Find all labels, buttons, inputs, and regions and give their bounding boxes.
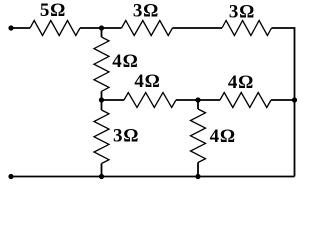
resistor R4 4ohm (vertical, node A to node B) xyxy=(94,37,109,91)
node C junction dot (middle rail / R8) xyxy=(195,97,200,102)
wire: top rail from R1 to node A and on to R2 xyxy=(80,27,122,29)
resistor R5 4ohm (middle left) xyxy=(124,93,176,108)
wire: node B down to R7 xyxy=(101,100,103,110)
resistor R6 4ohm (middle right) xyxy=(220,93,271,108)
wire: node C down to R8 xyxy=(197,100,199,109)
svg-text:4Ω: 4Ω xyxy=(112,51,138,72)
wire: bottom rail from left terminal to bottom-right corner xyxy=(11,176,295,178)
junction dot: R7 on bottom rail xyxy=(99,174,104,179)
terminal dot: left bottom input xyxy=(8,174,13,179)
wire: top rail from left terminal to R1 xyxy=(11,27,30,29)
svg-text:5Ω: 5Ω xyxy=(40,0,66,21)
svg-text:4Ω: 4Ω xyxy=(210,126,236,147)
resistor R8 4ohm (vertical, node C to bottom rail) xyxy=(191,109,206,163)
node B junction dot (R4 / middle rail / R7) xyxy=(99,97,104,102)
wire: middle rail from R6 to right rail node D xyxy=(271,99,295,101)
junction dot: R8 on bottom rail xyxy=(195,174,200,179)
wire: R7 down to bottom rail xyxy=(101,164,103,177)
wire: top rail between R2 and R3 xyxy=(173,27,223,29)
svg-text:3Ω: 3Ω xyxy=(113,126,139,147)
svg-text:3Ω: 3Ω xyxy=(133,1,159,22)
terminal dot: left top input xyxy=(8,25,13,30)
wire: top-right corner and right rail down to bottom-right corner xyxy=(272,28,295,177)
wire: middle rail from node B to R5 xyxy=(102,99,125,101)
wire: node A down to R4 xyxy=(101,28,103,37)
resistor R2 3ohm (top middle) xyxy=(122,21,173,36)
wire: R8 down to bottom rail xyxy=(197,163,199,177)
wire: R4 down to node B xyxy=(101,91,103,100)
svg-text:4Ω: 4Ω xyxy=(228,72,254,93)
resistor R7 3ohm (vertical, node B to bottom rail) xyxy=(94,110,109,164)
resistor R3 3ohm (top right) xyxy=(222,21,272,36)
resistor R1 5ohm (top left) xyxy=(30,21,80,36)
node A junction dot (top rail / R4) xyxy=(99,25,104,30)
node D junction dot (middle rail / right rail) xyxy=(292,97,297,102)
wire: middle rail from R5 through node C to R6 xyxy=(176,99,220,101)
svg-text:4Ω: 4Ω xyxy=(134,71,160,92)
svg-text:3Ω: 3Ω xyxy=(229,2,255,23)
